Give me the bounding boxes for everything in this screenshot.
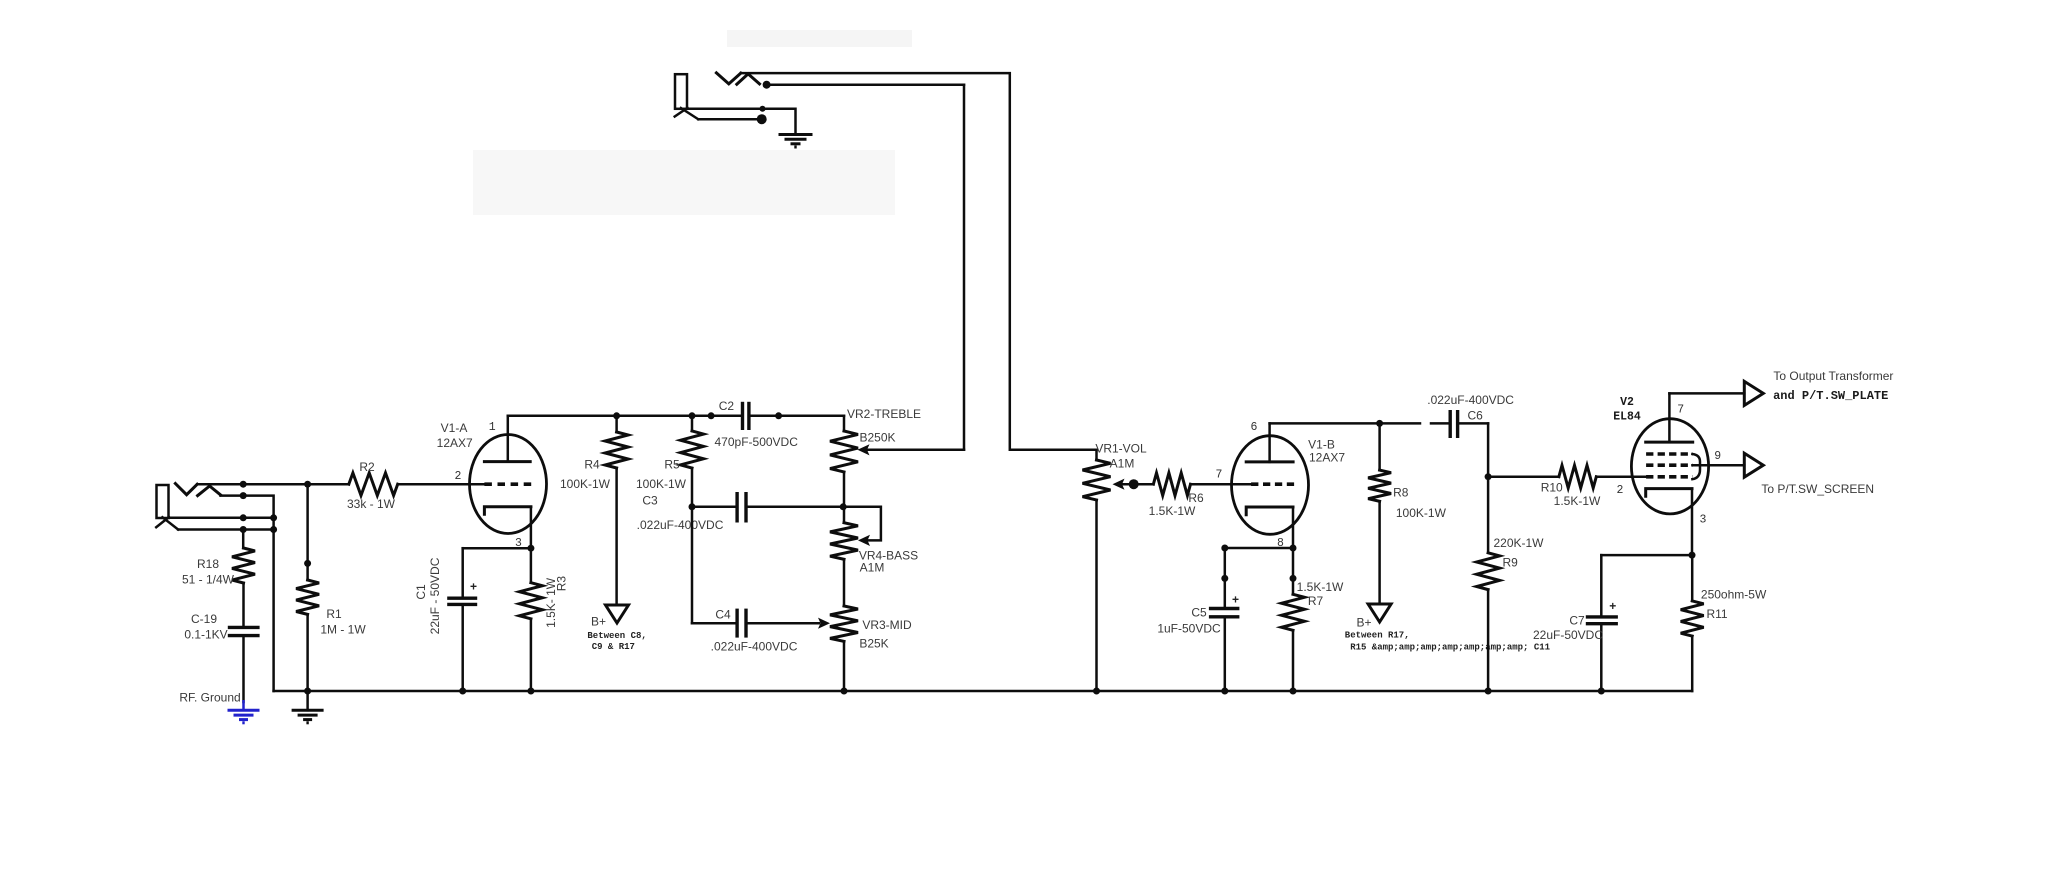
svg-text:RF. Ground: RF. Ground — [179, 691, 240, 705]
svg-text:A1M: A1M — [860, 561, 885, 575]
triode V1-B 12AX7 — [1215, 421, 1345, 550]
svg-text:R9: R9 — [1503, 556, 1519, 570]
svg-text:C5: C5 — [1191, 606, 1207, 620]
svg-text:.022uF-400VDC: .022uF-400VDC — [711, 640, 798, 654]
wire: top jack sleeve to ground — [687, 106, 796, 135]
svg-text:1.5K- 1W: 1.5K- 1W — [544, 577, 558, 628]
node: V2 cathode junction (pin 3) — [1601, 552, 1695, 559]
svg-text:EL84: EL84 — [1613, 411, 1641, 424]
ground below top jack — [779, 135, 813, 148]
svg-text:12AX7: 12AX7 — [1309, 451, 1345, 465]
potentiometer VR4-BASS A1M — [830, 507, 918, 606]
svg-text:2: 2 — [455, 470, 462, 483]
svg-text:+: + — [470, 580, 477, 594]
node: V1-B cathode junction (pin 8) — [1221, 545, 1296, 552]
svg-text:1M - 1W: 1M - 1W — [320, 623, 366, 637]
svg-text:Between R17,: Between R17, — [1345, 630, 1410, 640]
svg-text:1uF-50VDC: 1uF-50VDC — [1157, 622, 1221, 636]
capacitor C5 — [1157, 548, 1239, 695]
svg-text:+: + — [1232, 593, 1239, 607]
svg-text:1.5K-1W: 1.5K-1W — [1297, 580, 1344, 594]
resistor R3 — [519, 548, 568, 694]
svg-text:A1M: A1M — [1110, 457, 1135, 471]
svg-text:and P/T.SW_PLATE: and P/T.SW_PLATE — [1773, 389, 1888, 403]
wire: V1-A plate rail to C2 — [508, 412, 743, 419]
svg-text:B25K: B25K — [859, 637, 888, 651]
svg-text:1.5K-1W: 1.5K-1W — [1149, 504, 1196, 518]
svg-text:100K-1W: 100K-1W — [560, 477, 611, 491]
resistor R9 — [1477, 423, 1545, 694]
resistor R2 — [347, 460, 398, 511]
capacitor C2 — [715, 399, 844, 449]
svg-text:R4: R4 — [584, 458, 600, 472]
wire: treble wiper from top jack switch line — [858, 444, 965, 455]
capacitor C7 — [1533, 555, 1618, 694]
svg-text:B+: B+ — [1356, 615, 1371, 629]
svg-text:R15 &amp;amp;amp;amp;amp;amp;a: R15 &amp;amp;amp;amp;amp;amp;amp; C11 — [1350, 642, 1550, 652]
wire: bass wiper loop — [843, 507, 881, 546]
wire: bottom ground bus — [274, 690, 1693, 693]
wire: V2 plate to output arrow — [1669, 392, 1744, 395]
svg-text:VR1-VOL: VR1-VOL — [1095, 442, 1147, 456]
potentiometer VR1-VOL A1M — [1083, 442, 1147, 695]
svg-text:51 - 1/4W: 51 - 1/4W — [182, 573, 235, 587]
svg-text:R1: R1 — [326, 607, 342, 621]
B+ terminal (R4) — [587, 605, 646, 652]
svg-text:Between C8,: Between C8, — [587, 631, 646, 641]
resistor R4 — [560, 416, 628, 605]
resistor R11 — [1681, 555, 1767, 691]
resistor R5 — [636, 416, 704, 507]
wire: R6 to V1-B grid — [1191, 483, 1252, 486]
svg-text:R10: R10 — [1541, 480, 1563, 494]
svg-text:V2: V2 — [1620, 396, 1634, 409]
svg-text:R8: R8 — [1393, 486, 1409, 500]
svg-text:1: 1 — [489, 421, 496, 434]
terminal arrow: to P/T.SW_SCREEN — [1744, 453, 1874, 496]
svg-text:C4: C4 — [715, 608, 731, 622]
wire: top jack switch to treble wiper line — [763, 81, 964, 450]
capacitor C-19 — [184, 612, 259, 702]
svg-text:C1: C1 — [414, 584, 428, 600]
potentiometer VR3-MID B25K — [830, 606, 912, 695]
svg-text:.022uF-400VDC: .022uF-400VDC — [637, 518, 724, 532]
svg-text:0.1-1KV: 0.1-1KV — [184, 628, 227, 642]
resistor R6 — [1149, 473, 1204, 518]
svg-text:C9 & R17: C9 & R17 — [592, 642, 635, 652]
resistor R1 — [296, 484, 366, 694]
svg-text:VR2-TREBLE: VR2-TREBLE — [847, 407, 921, 421]
wire: jack sleeve lines — [169, 514, 278, 533]
svg-text:C7: C7 — [1569, 614, 1585, 628]
svg-text:R5: R5 — [664, 458, 680, 472]
svg-text:100K-1W: 100K-1W — [636, 477, 687, 491]
wire: V2 screen (pin 9) to arrow — [1692, 464, 1744, 467]
svg-text:12AX7: 12AX7 — [437, 436, 473, 450]
svg-text:22uF-50VDC: 22uF-50VDC — [1533, 628, 1603, 642]
pentode V2 EL84 — [1613, 393, 1721, 555]
svg-text:9: 9 — [1714, 450, 1721, 463]
terminal arrow: to output transformer — [1744, 369, 1893, 406]
resistor R7 — [1282, 548, 1345, 695]
svg-text:B+: B+ — [591, 615, 606, 629]
potentiometer VR2-TREBLE B250K — [830, 407, 921, 507]
RF ground node (blue) — [179, 691, 259, 723]
wire: jack switch contact to ground drop — [221, 492, 274, 691]
node: V1-A cathode junction (pin 3) — [463, 545, 535, 552]
svg-text:C-19: C-19 — [191, 612, 217, 626]
svg-text:R11: R11 — [1706, 607, 1727, 621]
svg-text:C3: C3 — [642, 494, 658, 508]
svg-text:.022uF-400VDC: .022uF-400VDC — [1427, 393, 1514, 407]
B+ terminal (R8) — [1345, 604, 1551, 652]
svg-text:VR3-MID: VR3-MID — [862, 618, 912, 632]
capacitor C1 — [414, 548, 477, 694]
resistor R8 — [1368, 423, 1446, 604]
svg-text:C2: C2 — [719, 399, 735, 413]
wire: VR1 wiper to R6 — [1113, 479, 1154, 490]
svg-text:470pF-500VDC: 470pF-500VDC — [715, 435, 799, 449]
resistor R10 — [1488, 465, 1646, 508]
svg-text:V1-A: V1-A — [441, 421, 468, 435]
svg-text:2: 2 — [1617, 484, 1624, 497]
triode V1-A 12AX7 — [437, 416, 547, 550]
svg-text:6: 6 — [1251, 421, 1258, 434]
svg-text:To P/T.SW_SCREEN: To P/T.SW_SCREEN — [1761, 482, 1874, 496]
svg-text:7: 7 — [1677, 403, 1684, 416]
wire: input jack tip/switch line to R2 and R1 junction — [197, 481, 349, 488]
capacitor C3 — [637, 492, 847, 532]
svg-text:V1-B: V1-B — [1308, 438, 1335, 452]
svg-text:To Output Transformer: To Output Transformer — [1773, 369, 1893, 383]
svg-text:3: 3 — [1700, 513, 1707, 526]
svg-text:B250K: B250K — [859, 431, 895, 445]
ground below R1 — [292, 691, 324, 723]
svg-text:220K-1W: 220K-1W — [1493, 536, 1544, 550]
top insert jack J2 — [675, 73, 760, 119]
wire: top jack lower sleeve stub — [698, 114, 767, 124]
svg-text:100K-1W: 100K-1W — [1396, 506, 1447, 520]
scan artifact blocks — [473, 30, 912, 215]
svg-text:33k - 1W: 33k - 1W — [347, 497, 396, 511]
resistor R18 — [182, 530, 255, 628]
wire: R5/C3/C4 left branch — [692, 507, 737, 623]
svg-text:7: 7 — [1215, 469, 1222, 482]
input jack J1 — [156, 484, 220, 530]
svg-text:1.5K-1W: 1.5K-1W — [1554, 494, 1601, 508]
wire: R2 to V1-A grid — [398, 483, 485, 486]
svg-text:R7: R7 — [1308, 594, 1324, 608]
capacitor C6 — [1427, 393, 1514, 438]
wire: top jack tip to VR1 (volume) — [741, 73, 1097, 450]
svg-text:R2: R2 — [359, 460, 375, 474]
svg-text:R6: R6 — [1188, 491, 1204, 505]
svg-text:C6: C6 — [1468, 408, 1484, 422]
svg-text:R18: R18 — [197, 557, 219, 571]
svg-text:22uF - 50VDC: 22uF - 50VDC — [428, 557, 442, 634]
svg-text:250ohm-5W: 250ohm-5W — [1701, 587, 1767, 601]
svg-text:+: + — [1609, 599, 1616, 613]
capacitor C4 — [711, 608, 830, 654]
wire: V1-B plate rail to C6 — [1270, 420, 1451, 427]
